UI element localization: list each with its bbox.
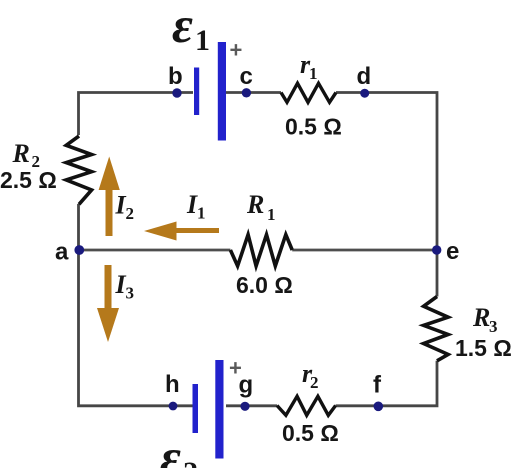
node f	[374, 402, 384, 412]
resistor R2	[66, 136, 91, 204]
current arrow I2	[99, 157, 120, 237]
resistor R3	[424, 297, 449, 361]
label node g	[239, 372, 254, 399]
wire left vertical below R2 to node a to bottom corner	[79, 204, 194, 406]
label node e	[446, 238, 459, 265]
label r1	[300, 50, 318, 83]
resistor r1	[281, 83, 336, 102]
node d	[360, 89, 369, 98]
svg-text:2.5 Ω: 2.5 Ω	[0, 167, 57, 193]
svg-text:3: 3	[126, 284, 135, 303]
svg-text:R: R	[12, 139, 30, 168]
current arrow I1	[144, 222, 219, 241]
label value 2.5 ohm	[0, 167, 57, 193]
wire top-left horizontal (corner to node b)	[79, 93, 194, 136]
node c	[242, 88, 251, 97]
svg-text:R: R	[472, 303, 490, 332]
label value 6.0 ohm	[236, 272, 293, 298]
svg-text:6.0 Ω: 6.0 Ω	[236, 272, 293, 298]
svg-text:b: b	[168, 63, 183, 90]
svg-text:R: R	[246, 190, 264, 219]
battery E2 plus sign	[229, 356, 242, 381]
label node c	[240, 63, 253, 90]
svg-text:h: h	[165, 371, 180, 398]
node h	[169, 402, 178, 411]
label value 0.5 ohm bottom	[282, 420, 339, 446]
wire middle branch a to e	[79, 249, 438, 252]
label value 0.5 ohm top	[285, 114, 342, 140]
svg-text:c: c	[240, 63, 253, 90]
svg-text:0.5 Ω: 0.5 Ω	[285, 114, 342, 140]
svg-text:ε: ε	[160, 430, 181, 468]
node g	[240, 402, 249, 411]
svg-text:1: 1	[267, 205, 276, 224]
node b	[172, 88, 181, 97]
svg-text:1: 1	[309, 64, 318, 83]
svg-text:1: 1	[197, 204, 206, 223]
label node b	[168, 63, 183, 90]
svg-text:a: a	[55, 239, 69, 266]
label R1	[246, 190, 276, 224]
resistor R1	[230, 235, 292, 266]
label I1	[186, 190, 206, 223]
label R3	[472, 303, 498, 336]
node a	[74, 245, 84, 255]
svg-text:f: f	[373, 372, 382, 399]
svg-text:+: +	[230, 38, 243, 63]
battery E2 positive plate	[215, 360, 223, 459]
node e	[432, 245, 441, 254]
svg-text:2: 2	[183, 456, 198, 468]
resistor r2	[277, 396, 336, 415]
svg-text:0.5 Ω: 0.5 Ω	[282, 420, 339, 446]
label r2	[302, 359, 319, 392]
battery E1 plus sign	[230, 38, 243, 63]
label emf E1	[172, 0, 210, 57]
svg-text:g: g	[239, 372, 254, 399]
svg-text:1.5 Ω: 1.5 Ω	[455, 335, 512, 361]
label R2	[12, 139, 41, 171]
label value 1.5 ohm	[455, 335, 512, 361]
svg-text:1: 1	[195, 24, 210, 57]
svg-text:3: 3	[489, 317, 498, 336]
wire top-right horizontal (node c to corner, with gaps for r1)	[226, 93, 437, 297]
svg-text:ε: ε	[172, 0, 193, 54]
battery E2 negative plate	[193, 384, 199, 433]
label emf E2	[160, 430, 198, 468]
label node f	[373, 372, 382, 399]
svg-text:2: 2	[126, 204, 135, 223]
label I2	[115, 191, 135, 224]
label node h	[165, 371, 180, 398]
wire bottom branch (battery2 to node f to right corner)	[226, 361, 437, 406]
label I3	[115, 270, 135, 303]
label node d	[357, 63, 372, 90]
svg-text:e: e	[446, 238, 459, 265]
battery E1 positive plate	[218, 42, 226, 141]
svg-text:d: d	[357, 63, 372, 90]
battery E1 negative plate	[194, 68, 199, 116]
label node a	[55, 239, 69, 266]
svg-text:2: 2	[310, 373, 319, 392]
current arrow I3	[97, 265, 119, 342]
